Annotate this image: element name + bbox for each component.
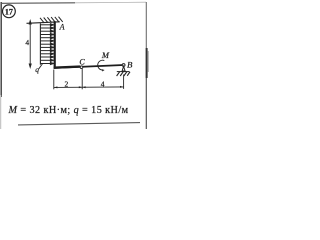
vertical dimension line 4: [29, 21, 31, 68]
table cell left border: [0, 2, 2, 97]
roller support link at B: [122, 66, 125, 71]
horizontal dimension line: [54, 86, 124, 89]
svg-text:q: q: [35, 65, 39, 74]
vertical member (column A): [54, 21, 56, 68]
load label q leader line: [39, 64, 43, 69]
table cell top border: [1, 2, 75, 5]
distributed load arrows q: [41, 24, 54, 65]
svg-text:2: 2: [65, 79, 69, 88]
svg-text:17: 17: [5, 7, 13, 16]
svg-text:M = 32 кН·м; q = 15 кН/м: M = 32 кН·м; q = 15 кН/м: [8, 105, 129, 116]
pin circle at B: [122, 64, 125, 67]
fixed support wall line at top: [27, 22, 60, 24]
support ground line at B: [117, 71, 130, 73]
svg-text:C: C: [79, 58, 85, 67]
svg-text:M: M: [101, 50, 110, 60]
distributed load left boundary line: [39, 23, 41, 64]
support ground hatching at B: [117, 72, 130, 76]
dimension arrowheads: [54, 86, 123, 89]
problem number circle 17: [2, 5, 15, 18]
svg-text:4: 4: [25, 38, 29, 47]
dimension extension line at corner: [53, 70, 55, 90]
svg-text:4: 4: [101, 80, 105, 89]
dimension extension line at B: [123, 75, 125, 89]
moment M arc arrow: [98, 60, 105, 70]
dimension extension line at C: [81, 69, 83, 89]
table cell bottom border: [18, 123, 140, 125]
table cell right border: [145, 2, 147, 48]
fixed support hatching: [40, 17, 63, 23]
beam heavier segment near corner: [54, 67, 80, 68]
node C circle: [80, 66, 83, 69]
svg-text:B: B: [127, 60, 133, 70]
horizontal beam from corner to B: [54, 65, 124, 68]
svg-text:A: A: [59, 23, 65, 32]
